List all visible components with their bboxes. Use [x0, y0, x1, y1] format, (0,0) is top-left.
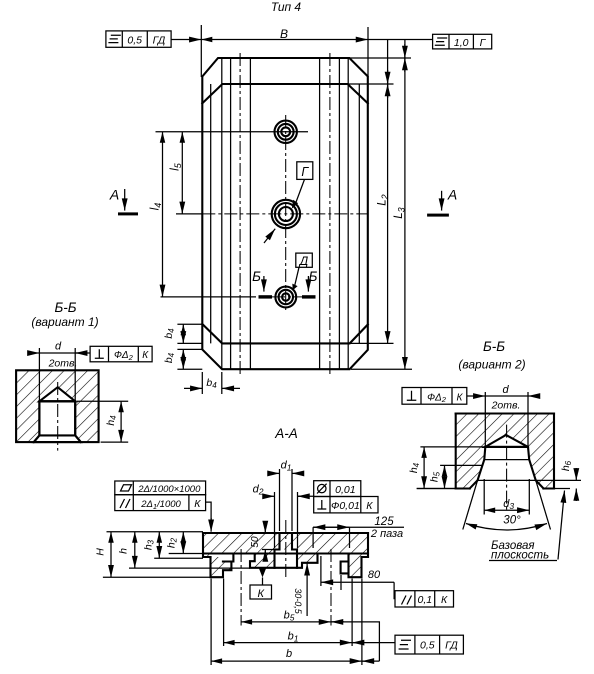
dimension h3	[154, 557, 203, 559]
dimension 80	[321, 581, 342, 583]
svg-text:b4: b4	[163, 328, 176, 339]
tolerance frame parallelism 2Δ1/1000 К	[115, 495, 206, 511]
dimension B: extension lines	[200, 25, 202, 77]
hole walls	[470, 447, 544, 488]
L2 top arrows (hourglass at y=84)	[387, 70, 389, 84]
section right edge	[362, 533, 369, 557]
svg-text:ФΔ2: ФΔ2	[427, 392, 447, 404]
svg-text:h5: h5	[429, 471, 442, 482]
hole 3 (bottom, Д) circles	[275, 287, 296, 308]
svg-text:L3: L3	[393, 207, 407, 218]
dimension L4	[162, 132, 164, 297]
svg-text:l4: l4	[150, 203, 164, 211]
central hole d1 walls	[275, 533, 298, 568]
dimension b4 #2	[182, 349, 184, 369]
svg-text:плоскость: плоскость	[491, 550, 549, 562]
section mark Б left: bar	[259, 295, 273, 298]
hole 2 (middle, Г) circles	[272, 200, 300, 228]
svg-text:h: h	[118, 548, 130, 554]
dimension h4 (вариант 2)	[420, 446, 485, 448]
svg-text:b: b	[286, 648, 292, 660]
svg-text:l5: l5	[170, 162, 184, 171]
svg-text:h3: h3	[143, 539, 156, 550]
section plane A-A centerline	[202, 213, 367, 215]
section mark А left: arrow	[124, 189, 126, 211]
dimension h2	[169, 553, 203, 555]
angle 30 lines	[463, 480, 478, 529]
hole internal line 1	[484, 459, 529, 461]
right rail hatched	[349, 554, 362, 578]
svg-text:К: К	[194, 498, 201, 510]
hatched slab of section	[203, 532, 368, 568]
hole centerline	[506, 425, 508, 512]
right slot right hook and rail	[341, 554, 368, 578]
svg-text:125: 125	[374, 516, 394, 528]
b5 extension (slot centers continue as cl lines)	[210, 579, 212, 666]
hole internal line 2	[478, 479, 536, 481]
svg-text:2 паза: 2 паза	[370, 528, 403, 540]
svg-text:Д: Д	[298, 254, 309, 268]
hole cone peak	[485, 435, 528, 447]
svg-text:Б-Б: Б-Б	[54, 300, 76, 315]
left slot recess	[223, 554, 233, 562]
leader arrow lower-left of hole 2	[264, 229, 275, 243]
dimension H (section left)	[107, 531, 204, 533]
svg-text:0,1: 0,1	[417, 594, 432, 606]
hole: peak	[39, 387, 75, 401]
dimension 30-0,5	[306, 563, 308, 616]
hole 3 centerline	[161, 296, 257, 298]
svg-text:К: К	[366, 500, 373, 512]
базовая плоскость leader	[558, 491, 565, 560]
svg-text:30°: 30°	[503, 515, 521, 527]
dimension h	[129, 567, 250, 569]
svg-text:2отв.: 2отв.	[48, 358, 78, 370]
svg-text:d2: d2	[253, 484, 264, 497]
svg-text:Н: Н	[95, 548, 107, 556]
section mark А left: bar	[118, 212, 138, 215]
svg-text:ГД: ГД	[153, 35, 166, 47]
svg-text:d3: d3	[503, 498, 514, 511]
svg-text:50: 50	[250, 536, 261, 548]
dimension L3 line	[404, 40, 406, 370]
leader to frame parallel 0,1 К	[393, 582, 396, 598]
svg-text:80: 80	[368, 569, 381, 581]
datum frame Г	[297, 162, 313, 180]
svg-text:Б-Б: Б-Б	[483, 339, 505, 354]
extension: inner top edge to right	[349, 83, 394, 85]
L3 top arrows (hourglass at y=58)	[404, 44, 406, 58]
svg-text:А: А	[109, 187, 119, 203]
hole walls	[34, 401, 81, 442]
dimension b4 #1	[182, 324, 184, 343]
svg-text:(вариант 1): (вариант 1)	[31, 315, 98, 329]
hatched block	[16, 370, 99, 442]
svg-text:К: К	[441, 594, 448, 606]
svg-text:А: А	[447, 187, 457, 203]
dimension 125, 2 паза	[312, 527, 314, 548]
svg-text:h4: h4	[105, 415, 118, 426]
slab bottom line	[203, 552, 368, 554]
section mark А right: arrow	[441, 191, 443, 211]
section mark Б right: arrow	[307, 276, 309, 292]
plate top surface edge (inner outline bottom)	[202, 324, 367, 343]
tolerance frame 1,0 Г (top right)	[433, 34, 492, 49]
svg-text:h4: h4	[408, 462, 421, 473]
central block hatched	[250, 533, 318, 568]
T-slot line left 2	[221, 58, 223, 369]
tolerance frame perp ФΔ2 К (вариант 2)	[402, 388, 467, 405]
dimension d3	[483, 479, 485, 515]
К leader arrow	[259, 569, 266, 578]
section top surface	[203, 532, 368, 534]
left rail outline	[211, 557, 232, 577]
svg-text:b4: b4	[163, 352, 176, 363]
T-slot centerline right	[329, 53, 331, 376]
dimension b1	[224, 642, 353, 644]
dimension b4 #3 (horizontal) extensions	[201, 372, 203, 394]
svg-text:0,5: 0,5	[420, 640, 435, 652]
dimension L2 line	[387, 40, 389, 344]
T-slot line left 4	[249, 58, 251, 369]
svg-text:К: К	[142, 350, 149, 361]
svg-text:ГД: ГД	[445, 640, 458, 652]
T-slot line left 1	[210, 84, 212, 343]
slot centerline left (section)	[240, 549, 242, 626]
tolerance frame perpendicularity Ф0,01 К	[314, 497, 378, 513]
bottom extension lines	[417, 488, 456, 490]
svg-text:К: К	[456, 392, 463, 403]
left rail hatched	[211, 557, 232, 577]
plate vertical centerline	[285, 115, 287, 312]
svg-text:d: d	[55, 341, 62, 353]
svg-text:2Δ/1000×1000: 2Δ/1000×1000	[137, 484, 201, 495]
svg-text:1,0: 1,0	[454, 37, 469, 49]
svg-text:h2: h2	[166, 537, 179, 548]
svg-text:Тип 4: Тип 4	[271, 0, 302, 14]
svg-text:0,5: 0,5	[127, 35, 142, 47]
dimension h4 (вариант 1)	[77, 400, 128, 402]
surface К designation box	[250, 585, 272, 599]
T-slot line right 1	[358, 84, 360, 343]
section mark А right: bar	[427, 214, 449, 217]
block top edge	[456, 412, 554, 414]
block outline	[16, 370, 99, 442]
svg-text:h6: h6	[560, 460, 573, 471]
T-slot line right 2	[347, 58, 349, 369]
section left edge	[203, 533, 211, 557]
svg-text:(вариант 2): (вариант 2)	[458, 358, 525, 372]
tolerance frame flatness 2Δ/1000x1000	[115, 481, 206, 495]
hole 1 (top) circles	[275, 121, 297, 143]
tolerance frame 0,5 ГД (top left)	[106, 31, 171, 47]
block left edge	[455, 414, 457, 489]
dimension B line with leader to frames	[171, 39, 201, 41]
svg-text:2отв.: 2отв.	[491, 400, 521, 412]
hole 1 centerline	[156, 131, 309, 133]
dimension b4 #3 arrows	[184, 387, 202, 389]
hole cone white	[470, 436, 542, 489]
b4 extension lines (bottom left of plan)	[177, 323, 202, 325]
extension: bottom edge to right	[351, 368, 412, 370]
leader from frames to section top	[206, 502, 212, 529]
hole cone base thick line	[485, 446, 528, 448]
block right edge	[553, 414, 555, 489]
svg-text:0,01: 0,01	[335, 484, 355, 496]
T-slot line right 4	[319, 58, 321, 369]
svg-text:Б: Б	[252, 269, 261, 284]
svg-text:Б: Б	[309, 269, 318, 284]
dimension h5	[440, 464, 483, 466]
hole centerline	[57, 382, 59, 451]
plate top surface edge (inner outline top)	[202, 84, 367, 103]
dimension b5	[241, 621, 331, 623]
svg-text:Ф0,01: Ф0,01	[331, 500, 360, 512]
extension for 80 right	[340, 575, 342, 590]
tolerance frame perp ФΔ2 К (вариант 1)	[90, 346, 152, 362]
svg-text:К: К	[257, 588, 264, 600]
datum frame Д	[296, 253, 313, 267]
leader from Г frame to hole 2	[296, 179, 305, 203]
svg-text:ФΔ2: ФΔ2	[114, 350, 134, 362]
dimension h6	[536, 479, 581, 481]
section vertical centerline	[285, 520, 287, 580]
svg-text:b1: b1	[288, 631, 299, 644]
svg-text:b4: b4	[206, 377, 217, 390]
central block outline	[250, 554, 318, 568]
svg-text:В: В	[280, 27, 288, 41]
hatched block	[456, 414, 554, 489]
svg-text:Г: Г	[301, 165, 309, 179]
slot centerline right (section)	[330, 549, 332, 626]
svg-text:L2: L2	[377, 194, 391, 205]
dimension b	[211, 660, 362, 662]
dimension L5	[181, 132, 183, 214]
section mark Б left: arrow	[263, 276, 265, 292]
extension: top edge to right	[350, 57, 411, 59]
svg-text:d1: d1	[281, 460, 292, 473]
svg-text:d: d	[502, 384, 509, 396]
T-slot centerline left	[239, 53, 241, 376]
tolerance frame 0,5 ГД (bottom)	[395, 635, 463, 654]
svg-text:2Δ1/1000: 2Δ1/1000	[140, 499, 181, 511]
T-slot line left 3	[230, 58, 232, 369]
leader from Д frame to hole 3	[295, 267, 300, 286]
svg-text:А-А: А-А	[274, 426, 298, 441]
hole 2 centerline	[176, 213, 202, 215]
svg-text:30-0,5: 30-0,5	[293, 588, 303, 615]
tolerance frame circularity 0,01	[314, 481, 361, 497]
T-slot line right 3	[338, 58, 340, 369]
section mark Б right: bar	[302, 295, 316, 298]
block bottom edges	[456, 487, 554, 489]
svg-text:Г: Г	[480, 37, 487, 49]
tolerance frame parallel 0,1 К	[395, 591, 454, 607]
extension: inner bottom edge to right	[351, 342, 394, 344]
plate outer outline (plan view)	[202, 58, 367, 369]
